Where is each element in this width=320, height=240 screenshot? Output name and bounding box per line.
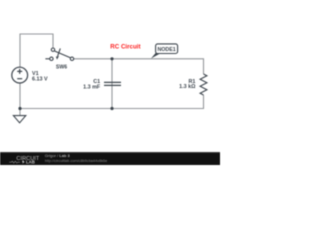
svg-text:1.3 kΩ: 1.3 kΩ [179,84,196,90]
ground [13,116,25,123]
wire switch output to right corner down to R1 [74,59,204,74]
svg-text:1.3 mF: 1.3 mF [83,85,101,91]
footer bar [0,152,222,167]
voltage source V1 [12,67,28,83]
junction at capacitor bottom [110,107,113,110]
label R1 value [179,79,196,90]
label SW6 [56,65,67,71]
footer text [45,153,107,163]
svg-text:NODE1: NODE1 [157,47,175,53]
svg-text:SW6: SW6 [56,65,67,71]
svg-text:6.13 V: 6.13 V [32,77,48,83]
wire top-left loop: V1 top to switch pole [20,34,53,67]
annotation RC Circuit [110,43,140,50]
node NODE1 callout [151,44,178,59]
junction at capacitor top [110,57,113,60]
capacitor C1 [104,82,121,85]
wire capacitor branch [111,59,113,109]
svg-text:http://circuitlab.com/c8b9cba4: http://circuitlab.com/c8b9cba44v8k6e [45,159,107,163]
label C1 value [83,79,101,90]
svg-text:RC Circuit: RC Circuit [110,43,140,50]
wire ground riser [19,109,21,116]
svg-text:Grigor / Lab 3: Grigor / Lab 3 [45,153,71,158]
resistor R1 [200,74,207,95]
wire V1 bottom to bottom-left junction [19,83,21,109]
junction at bottom-left [18,107,21,110]
wire bottom rail [20,95,204,109]
switch SW6 [45,48,73,61]
label V1 value [32,71,48,82]
svg-text:LAB: LAB [26,160,35,165]
footer logo CIRCUIT LAB [9,156,40,164]
